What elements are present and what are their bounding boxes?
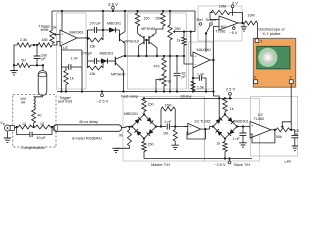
svg-text:1/2 TL082: 1/2 TL082 (194, 120, 211, 124)
wiper arrow trigger pot (54, 33, 60, 36)
diode master bridge NW (132, 115, 144, 127)
wire -2.5V bottom stub (229, 159, 231, 162)
wire 1nF U2 branch (193, 77, 199, 79)
wire fast ramp line (125, 55, 184, 57)
wire U5 feedback (250, 130, 275, 143)
svg-text:2k: 2k (53, 25, 57, 29)
resistor 15k lower (88, 66, 104, 70)
wire U5 out (271, 129, 276, 131)
wire U2 bottom pin (192, 68, 194, 92)
resistor 15M (161, 107, 175, 111)
wire Q3 collector down (138, 46, 140, 56)
wire pair base drop (146, 40, 148, 56)
svg-text:MPSH81: MPSH81 (141, 27, 155, 31)
group box fast ramp (128, 13, 187, 89)
wire U4 out (201, 128, 210, 130)
ground slave 1nF (239, 143, 247, 147)
node slave bridge top (224, 113, 226, 115)
terminal 5V (231, 5, 234, 8)
svg-text:MBD301: MBD301 (235, 120, 249, 124)
svg-text:1/2: 1/2 (258, 113, 263, 117)
wire -2.5V stub (101, 92, 103, 94)
wire Q4 emitter up (154, 26, 163, 34)
wire 250 top (169, 11, 171, 25)
resistor 1k slave bottom (223, 142, 227, 152)
ground 1M (171, 145, 179, 149)
svg-text:40 pF: 40 pF (37, 136, 47, 140)
wire U4 plus jog (184, 126, 188, 128)
wire top 2.5V rail (52, 10, 195, 12)
svg-text:1 nF: 1 nF (164, 120, 172, 124)
svg-text:1 nF: 1 nF (71, 57, 79, 61)
svg-text:2.5 V: 2.5 V (226, 87, 236, 92)
group box strobe (189, 42, 214, 89)
junction rail x170 (169, 10, 171, 12)
node 2.5V supply terminal (112, 6, 115, 9)
svg-text:1/2: 1/2 (221, 25, 226, 29)
terminal +2.5V bias (229, 92, 232, 95)
junction base ramp line (145, 55, 147, 57)
junction Q3 collector ramp (137, 55, 139, 57)
wire U1 output vertical (87, 30, 89, 61)
svg-text:13: 13 (40, 122, 44, 126)
wire 1M gnd stub (174, 141, 176, 145)
svg-text:Master T/H: Master T/H (151, 163, 170, 167)
svg-text:1M: 1M (163, 132, 168, 136)
node master bridge bottom (143, 137, 145, 139)
compensation dashed box (13, 95, 56, 147)
junction coax tap (42, 64, 44, 66)
node slave bridge right (236, 125, 238, 127)
group box ref buffer (198, 6, 242, 41)
svg-text:10M: 10M (247, 13, 254, 17)
diode master bridge SW (132, 127, 144, 139)
svg-text:LPF: LPF (285, 160, 293, 164)
comparator U2 MAX961 (193, 52, 210, 68)
junction comp mid node (32, 126, 34, 128)
group box LPF (251, 97, 298, 157)
wire U3 -5V stub (233, 25, 235, 27)
wire pot wiper to comparator plus (59, 34, 62, 36)
node master bridge left (131, 125, 133, 127)
svg-text:MBD301: MBD301 (100, 51, 114, 55)
wire into trigger coax (42, 65, 44, 70)
inductor 100 nH (34, 97, 36, 110)
capacitor 82 pF (174, 73, 181, 75)
junction slave bottom rail (224, 157, 226, 159)
wire 1k top stub (65, 67, 67, 71)
svg-text:150: 150 (144, 17, 150, 21)
input BNC connector (5, 125, 11, 131)
wire LE loop right (81, 50, 83, 67)
junction ground leg 50 left (13, 64, 15, 66)
svg-text:1k: 1k (217, 142, 221, 146)
resistor 1k slave top (223, 98, 227, 111)
transistor Q1 MPSH10 (120, 32, 126, 44)
terminal T square (255, 39, 259, 43)
svg-text:nH: nH (21, 101, 26, 105)
wire 82pF bottom (176, 76, 178, 91)
resistor 180 (38, 43, 52, 47)
svg-text:50k: 50k (276, 135, 282, 139)
diode slave bridge NE (225, 115, 237, 127)
wire slave bottom to rail (224, 152, 226, 159)
wire U4 feedback (187, 129, 205, 139)
junction U3 output (241, 22, 243, 24)
svg-text:270 pF: 270 pF (90, 21, 102, 25)
junction 180 left node (33, 44, 35, 46)
junction -2.5V tap (101, 90, 103, 92)
junction 90 tap (128, 126, 130, 128)
svg-text:8-meter RG58A/U: 8-meter RG58A/U (72, 137, 102, 141)
wire ground leg down (13, 65, 15, 70)
wire LE left down to rail (61, 67, 63, 92)
junction ramp line end (183, 55, 185, 57)
wire LE loop bottom right (71, 66, 82, 68)
potentiometer trigger level 2k (50, 31, 54, 44)
junction rail x123 (122, 90, 124, 92)
junction rail x61 (60, 90, 62, 92)
svg-text:1k: 1k (70, 77, 74, 81)
diode master bridge SE (144, 127, 156, 139)
junction Q1 collector rail (124, 10, 126, 12)
wire rail corner down to pot wiper line (194, 11, 196, 32)
junction comp left node (16, 126, 18, 128)
terminal -2.5V (101, 94, 104, 97)
wire 50k wiper link (282, 122, 291, 124)
wire 5k bottom (163, 86, 165, 92)
wire 15k upper right leg (102, 30, 104, 40)
op-amp U3 1/2 TL082 (219, 16, 238, 30)
comparator U1 MAX961 (60, 30, 77, 46)
wire 180 to comparator minus (52, 42, 60, 46)
resistor 10M feedback (211, 10, 230, 14)
wire rail down to trigger pot (51, 11, 53, 31)
diode slave bridge NW (213, 115, 225, 127)
junction wiper 1k tap (183, 30, 185, 32)
wire 270pF upper left (88, 29, 95, 31)
potentiometer 5k (162, 74, 166, 86)
wire Q4 collector down (154, 46, 157, 56)
svg-text:Compensation: Compensation (21, 146, 45, 150)
capacitor 1 nF trigger (69, 64, 71, 70)
diode master bridge NE (144, 115, 156, 127)
capacitor 100 nF (291, 135, 298, 137)
group box trigger (57, 13, 87, 89)
wire 50k right (290, 129, 295, 131)
junction -2.5V bottom tap (228, 157, 230, 159)
junction bias rail 2.5V (229, 97, 231, 99)
svg-text:1k: 1k (177, 39, 181, 43)
svg-text:50: 50 (21, 59, 25, 63)
wire 1M top stub (174, 127, 176, 130)
terminal -5V (233, 27, 236, 30)
wire 100pF bottom stub (36, 59, 38, 66)
svg-text:−2.5 V: −2.5 V (97, 99, 109, 104)
wire 150 right top (162, 11, 164, 13)
capacitor 1 nF master (167, 124, 169, 130)
wire 90 gnd wire (116, 146, 129, 148)
diode MBD301 lower (101, 58, 108, 63)
svg-text:X-Y plotter: X-Y plotter (262, 31, 281, 36)
svg-text:Ref: Ref (197, 17, 204, 22)
svg-text:15k: 15k (90, 45, 96, 49)
svg-text:15M: 15M (165, 103, 172, 107)
capacitor 270 pF upper (94, 27, 96, 33)
junction U1 output node (86, 37, 88, 39)
wire 90 top stub (129, 127, 131, 130)
junction Q4 collector ramp (156, 55, 158, 57)
svg-text:Y: Y (289, 75, 292, 80)
wire +2.5V bias rail (144, 97, 232, 99)
wire 40pF loop right (32, 127, 52, 135)
resistor 1k trigger (64, 71, 68, 85)
switch lever (206, 25, 210, 33)
wire BNC to comp box (14, 127, 16, 128)
resistor 150 master top (142, 98, 146, 111)
svg-text:150: 150 (155, 17, 161, 21)
resistor 13 left (18, 125, 32, 129)
junction Q1 emitter ramp line (124, 55, 126, 57)
wire +2.5V bias stub (229, 95, 231, 98)
oscilloscope beam spot (258, 48, 277, 67)
wire diode to Q1 base (116, 30, 120, 33)
svg-text:and hold: and hold (58, 100, 73, 104)
wire 15k lower left leg (87, 61, 89, 68)
wire 270pF lower right (97, 60, 101, 62)
terminal Y square (289, 80, 293, 84)
delay line coax 8m RG58A/U (53, 125, 121, 132)
transistor Q2 MPSH10 (115, 56, 123, 71)
svg-text:13: 13 (22, 122, 26, 126)
svg-text:1.5k: 1.5k (197, 85, 204, 89)
wire comp mid joins (32, 126, 35, 128)
resistor 150 right (161, 13, 165, 26)
junction master bridge top rail (143, 97, 145, 99)
wire Q2 emitter down (122, 71, 124, 92)
svg-text:470: 470 (154, 65, 160, 69)
junction 82pF top (176, 55, 178, 57)
input BNC flange (10, 126, 14, 131)
wire U2 out strobe (210, 59, 214, 61)
wire 15k lower right leg (102, 61, 104, 68)
junction 15k upper tap (102, 29, 104, 31)
potentiometer 250 (168, 25, 172, 40)
junction rail x177 (176, 90, 178, 92)
junction strobe node (212, 59, 214, 61)
wire to scope T (256, 23, 258, 39)
wire slave bridge out (237, 126, 250, 128)
wire 50 right to coax node (30, 64, 43, 66)
wire comp left to 13 (17, 126, 19, 128)
svg-text:Fast ramp: Fast ramp (121, 94, 138, 98)
node slave bridge left (212, 125, 214, 127)
wire 10M gnd stub (243, 23, 245, 27)
switch contact Ref (199, 23, 202, 26)
capacitor 1 nF strobe (199, 75, 201, 81)
capacitor 1 nF slave (240, 133, 247, 135)
oscilloscope screen (257, 46, 290, 68)
resistor 1k ramp (182, 37, 186, 45)
transistor Q3 MPSH81 left (139, 34, 144, 45)
junction slave 1nF tap (242, 125, 244, 127)
resistor 13 right (35, 125, 50, 129)
wire 150 left top (137, 11, 139, 13)
svg-text:1 nF: 1 nF (197, 72, 205, 76)
svg-text:TL082: TL082 (254, 117, 264, 121)
junction rail x164 (163, 90, 165, 92)
junction rail x137 (136, 10, 138, 12)
svg-text:−2.5 V: −2.5 V (214, 163, 226, 167)
svg-text:−5 V: −5 V (230, 31, 238, 35)
capacitor 100 pF (34, 56, 41, 58)
wire U4 to slave bridge (210, 127, 214, 130)
svg-text:MPSH10: MPSH10 (125, 40, 139, 44)
svg-text:270 pF: 270 pF (81, 51, 93, 55)
wire scope Y (290, 84, 292, 130)
svg-text:5 V: 5 V (232, 2, 238, 6)
wiper arrow 50k (281, 124, 284, 128)
junction top rail at 2.5V (112, 10, 114, 12)
wire slave 1nF gnd stub (242, 136, 244, 143)
wire 15M left leg (160, 109, 162, 127)
capacitor 270 pF lower (94, 58, 96, 64)
terminal X square (254, 80, 258, 84)
junction 250 bottom ramp (169, 55, 171, 57)
wire 40pF loop left (17, 127, 30, 135)
junction U5 out (274, 129, 276, 131)
wire slave bottom stub (224, 139, 226, 142)
svg-text:Slave T/H: Slave T/H (234, 163, 251, 167)
svg-text:MBD301: MBD301 (107, 21, 121, 25)
wire 82pF top stub (176, 56, 178, 73)
wire pair bases joined (144, 39, 149, 41)
junction rail x163 (162, 10, 164, 12)
wire slave 1nF stub (242, 127, 244, 133)
wire 40 to node (33, 123, 35, 127)
wire strobe down (213, 60, 215, 92)
wire strobe to slave bridge (214, 92, 220, 121)
resistor 90 (128, 130, 132, 147)
junction strobe bias rail cross (218, 97, 220, 99)
op-amp U5 1/2 TL082 slave (250, 122, 271, 139)
svg-text:90: 90 (119, 134, 123, 138)
svg-text:15k: 15k (90, 72, 96, 76)
ground input BNC (4, 138, 11, 142)
wire LE right down to rail (81, 67, 83, 92)
svg-text:150: 150 (148, 103, 154, 107)
node slave bridge bottom (224, 137, 226, 139)
ground 100nF (292, 146, 298, 150)
junction pair bases (145, 39, 147, 41)
switch common (205, 32, 207, 34)
junction U1 supply rail (61, 10, 63, 12)
svg-text:40: 40 (38, 114, 42, 118)
svg-text:MAX961: MAX961 (197, 48, 212, 52)
wire wiper to comp plus (191, 32, 193, 56)
wire U1 output split (77, 37, 88, 39)
diode slave bridge SW (213, 127, 225, 139)
svg-text:MBD301: MBD301 (124, 112, 138, 116)
resistor 10M output (245, 21, 258, 25)
junction rail x156 (155, 90, 157, 92)
resistor 50 (17, 63, 30, 67)
svg-text:1 nF: 1 nF (233, 137, 241, 141)
svg-text:level: level (41, 28, 49, 32)
wire master bottom stub (143, 139, 145, 142)
wire U3 feedback (210, 13, 213, 20)
wire Q1 emitter down (124, 43, 126, 56)
wire 1k ramp to comp2 (184, 45, 193, 64)
resistor 150 master bottom (142, 142, 146, 152)
wire 270pF lower left (88, 60, 95, 62)
junction 470 top (163, 55, 165, 57)
wire U3 out (238, 22, 245, 24)
junction rail x103 (102, 10, 104, 12)
wire diode to Q2 base (108, 60, 116, 62)
junction 15k lower tap (102, 60, 104, 62)
junction rail x193 (192, 90, 194, 92)
resistor 1M (173, 130, 177, 142)
wire 1k ramp top (183, 32, 185, 37)
wire 1nF U2 right (202, 78, 206, 92)
wire master top stub (143, 112, 145, 115)
svg-text:X: X (254, 75, 257, 80)
wire U3 +5V stub (232, 8, 234, 16)
wire 250 bottom (169, 40, 171, 92)
wire U3 minus in (210, 19, 219, 21)
ground 10M (241, 27, 247, 31)
wire BNC ground stub (7, 131, 9, 138)
svg-text:Strobe: Strobe (180, 94, 191, 98)
wire 15k node up to rail (102, 11, 104, 30)
wire 50 left stub (14, 64, 17, 66)
oscilloscope box (253, 38, 295, 87)
svg-text:LE: LE (63, 45, 68, 50)
wire -2.5V rail (57, 91, 214, 93)
wire 470 to 5k (163, 72, 165, 74)
svg-text:1k: 1k (230, 107, 234, 111)
diode slave bridge SE (225, 127, 237, 139)
resistor 2.3k (17, 43, 31, 47)
wire master cap to op-amp (170, 126, 188, 128)
resistor 40 (32, 110, 36, 123)
junction rail end strobe (212, 90, 214, 92)
wiper arrow 5k pot (158, 78, 162, 81)
group box master T/H (123, 97, 205, 162)
diode MBD301 upper (109, 27, 116, 32)
junction 100pF top (36, 44, 38, 46)
wire comp 13 to right node (50, 126, 52, 128)
wire 1k to rail (65, 85, 67, 92)
potentiometer 50k (276, 128, 290, 132)
op-amp U4 1/2 TL082 master (188, 123, 201, 134)
wire slave top stub (224, 112, 226, 115)
wire switch common down (205, 34, 207, 53)
resistor 470 (162, 58, 166, 72)
wire comparator pin down (61, 46, 63, 50)
svg-text:MAX961: MAX961 (70, 30, 84, 34)
wire 15M right leg (174, 109, 176, 127)
wire LE loop left (61, 50, 63, 67)
wire 470 top stub (163, 56, 165, 58)
junction 15M right (174, 125, 176, 127)
wire Q1 collector to rail (124, 11, 126, 32)
wire master bottom to -2.5 rail (143, 152, 145, 159)
svg-text:150: 150 (148, 143, 154, 147)
transistor Q4 MPSH81 right (149, 34, 154, 45)
wire Q2 collector up (123, 55, 124, 57)
